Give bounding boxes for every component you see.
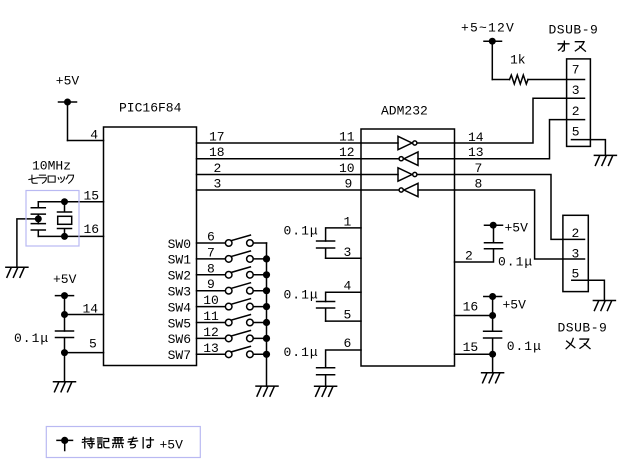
buffer U2A driver	[398, 136, 412, 149]
wire pin15	[38, 201, 103, 203]
wire U2D in/out inside box	[361, 189, 455, 191]
svg-text:14: 14	[83, 302, 99, 317]
svg-text:16: 16	[84, 222, 100, 237]
capacitor ceramic resonator left top	[31, 202, 45, 224]
svg-text:7: 7	[572, 62, 580, 77]
wire pin5	[65, 352, 104, 354]
buffer U2D receiver	[404, 183, 418, 196]
ground resonator	[6, 267, 28, 277]
svg-text:SW7: SW7	[168, 348, 191, 363]
switch SW4	[197, 299, 267, 307]
junction dot +5V top-left	[64, 99, 71, 106]
svg-text:9: 9	[345, 177, 353, 192]
svg-text:11: 11	[339, 130, 355, 145]
svg-text:6: 6	[207, 230, 215, 245]
svg-text:0.1μ: 0.1μ	[507, 339, 542, 354]
switch SW2	[197, 267, 267, 275]
svg-text:SW5: SW5	[168, 316, 191, 331]
box resonator outline	[26, 191, 79, 247]
svg-text:11: 11	[203, 309, 219, 324]
ground PIC bypass	[54, 382, 76, 392]
svg-text:15: 15	[463, 340, 479, 355]
svg-text:0.1μ: 0.1μ	[284, 288, 319, 303]
switch SW6	[197, 331, 267, 339]
power +5~12V symbol	[484, 41, 502, 79]
svg-text:+5V: +5V	[503, 298, 527, 313]
power symbol legend	[57, 440, 73, 450]
svg-text:7: 7	[207, 245, 215, 260]
node bus SW5	[263, 319, 270, 326]
junction dot +5V left	[61, 292, 68, 299]
wire U2B in/out inside box	[361, 158, 455, 160]
svg-text:SW1: SW1	[168, 253, 192, 268]
node bus SW4	[263, 303, 270, 310]
wire resonator to ground	[17, 219, 38, 267]
buffer U2B receiver	[404, 152, 418, 165]
switch SW7	[197, 346, 267, 354]
power +5V left symbol	[56, 296, 74, 331]
wire to R1	[492, 79, 509, 81]
node bus SW2	[263, 271, 270, 278]
capacitor C2 0.1u pins4-5	[317, 302, 335, 322]
svg-text:5: 5	[572, 267, 580, 282]
svg-text:10MHz: 10MHz	[32, 159, 71, 174]
svg-text:0.1μ: 0.1μ	[498, 255, 533, 270]
svg-text:13: 13	[203, 341, 219, 356]
node resonator pin15	[61, 198, 68, 205]
label legend 特記無きは	[82, 437, 153, 448]
svg-text:10: 10	[339, 161, 355, 176]
svg-text:6: 6	[344, 336, 352, 351]
wire J1 pin5 to ground	[572, 140, 606, 156]
wire R1 to DSUB male pin7	[528, 79, 585, 81]
wire pin4	[68, 140, 104, 142]
switch SW5	[197, 315, 267, 323]
svg-text:15: 15	[84, 189, 100, 204]
svg-text:4: 4	[90, 128, 98, 143]
wire U2C in/out inside box	[361, 174, 455, 176]
label J1 オス male	[558, 41, 585, 51]
connector J2 DSUB-9 female body	[563, 215, 588, 291]
wire RA pin2 to pin10	[197, 174, 362, 176]
connector J1 DSUB-9 male body	[567, 59, 591, 146]
node resonator mid	[35, 215, 42, 222]
node bus SW6	[263, 335, 270, 342]
node bus SW7	[263, 351, 270, 358]
capacitor C1 0.1u pins1-3	[317, 241, 335, 258]
wire ADM pin2	[455, 249, 494, 262]
ground J2	[593, 301, 615, 311]
svg-text:12: 12	[203, 325, 219, 340]
junction dot +5V pin16	[489, 293, 496, 300]
svg-text:0.1μ: 0.1μ	[14, 331, 49, 346]
node bus SW3	[263, 287, 270, 294]
switch SW1	[197, 251, 267, 259]
svg-text:14: 14	[468, 130, 484, 145]
svg-text:10: 10	[203, 293, 219, 308]
label J2 メス female	[566, 338, 590, 348]
svg-text:PIC16F84: PIC16F84	[119, 101, 182, 116]
wire ADM pin13 to J1 pin2	[455, 120, 585, 159]
wire ADM pin7 to J2 pin2	[455, 175, 585, 240]
svg-text:8: 8	[207, 261, 215, 276]
svg-text:0.1μ: 0.1μ	[284, 345, 319, 360]
junction dot legend	[61, 437, 68, 444]
wire ADM pin5	[326, 320, 361, 322]
node pin5	[61, 349, 68, 356]
svg-text:0.1μ: 0.1μ	[284, 224, 319, 239]
wire switch common bus	[266, 243, 268, 386]
label resonator セラロック	[29, 175, 74, 183]
svg-text:5: 5	[89, 337, 97, 352]
svg-text:DSUB-9: DSUB-9	[558, 321, 608, 336]
svg-text:2: 2	[572, 226, 580, 241]
wire ADM pin8 to J2 pin3	[455, 190, 585, 259]
ground J1	[594, 155, 616, 165]
svg-text:+5V: +5V	[53, 272, 77, 287]
node pin14	[61, 311, 68, 318]
wire ADM pin1	[326, 228, 361, 241]
node pin15	[489, 351, 496, 358]
junction dot +5~12V	[489, 38, 496, 45]
svg-text:DSUB-9: DSUB-9	[549, 23, 599, 38]
svg-text:3: 3	[572, 247, 580, 262]
wire ADM pin14 to J1 pin3	[455, 98, 585, 143]
svg-text:+5~12V: +5~12V	[461, 21, 515, 36]
wire RA pin3 to pin9	[197, 189, 362, 191]
svg-text:8: 8	[475, 177, 483, 192]
wire ADM pin16	[455, 315, 493, 317]
capacitor C3 0.1u pin6	[317, 368, 335, 387]
svg-text:SW4: SW4	[168, 300, 192, 315]
capacitor C4 0.1u V+	[485, 225, 503, 249]
svg-text:3: 3	[572, 83, 580, 98]
svg-text:7: 7	[475, 161, 483, 176]
power +5V at C4	[485, 224, 503, 226]
svg-text:16: 16	[463, 300, 479, 315]
svg-text:9: 9	[207, 277, 215, 292]
ground C5	[482, 373, 504, 383]
svg-text:+5V: +5V	[505, 221, 529, 236]
svg-text:12: 12	[339, 145, 355, 160]
svg-text:17: 17	[209, 130, 225, 145]
ground switch bus	[256, 386, 278, 396]
buffer U2C driver	[398, 168, 412, 181]
junction dot +5V C4	[490, 222, 497, 229]
power +5V at pin16	[484, 297, 502, 332]
svg-text:ADM232: ADM232	[381, 104, 428, 119]
power +5V top-left symbol	[59, 102, 77, 141]
svg-text:SW0: SW0	[168, 237, 191, 252]
capacitor C5 0.1u VCC	[484, 331, 502, 372]
capacitor C bypass 0.1u PIC	[56, 331, 74, 382]
svg-text:+5V: +5V	[160, 438, 184, 453]
svg-text:13: 13	[468, 145, 484, 160]
svg-text:2: 2	[572, 104, 580, 119]
wire ADM pin3	[326, 257, 361, 259]
svg-text:SW2: SW2	[168, 269, 191, 284]
wire pin16	[38, 235, 103, 237]
svg-text:4: 4	[344, 279, 352, 294]
node resonator pin16	[61, 233, 68, 240]
wire J2 pin5 to ground	[572, 280, 605, 300]
svg-text:3: 3	[344, 245, 352, 260]
wire U2A in/out inside box	[361, 142, 455, 144]
svg-text:1k: 1k	[510, 53, 526, 68]
box legend note	[46, 427, 200, 458]
capacitor ceramic resonator left bottom	[31, 224, 45, 237]
svg-text:18: 18	[209, 145, 225, 160]
resistor R1 1k	[510, 75, 529, 84]
node bus SW1	[263, 255, 270, 262]
wire ADM pin15	[455, 353, 493, 355]
wire pin14	[65, 314, 104, 316]
svg-text:1: 1	[344, 215, 352, 230]
switch SW0	[197, 235, 267, 243]
wire RB pin17 to pin11	[197, 142, 362, 144]
ground C3	[315, 386, 337, 396]
svg-text:2: 2	[465, 249, 473, 264]
svg-text:2: 2	[214, 161, 222, 176]
node pin16	[489, 312, 496, 319]
svg-text:+5V: +5V	[56, 74, 80, 89]
svg-text:5: 5	[344, 308, 352, 323]
wire RB pin18 to pin12	[197, 158, 362, 160]
wire ADM pin4	[326, 292, 361, 301]
IC U1 PIC16F84 body	[104, 127, 197, 366]
svg-text:SW3: SW3	[168, 285, 191, 300]
svg-text:5: 5	[572, 125, 580, 140]
switch SW3	[197, 283, 267, 291]
IC U2 ADM232 body	[361, 129, 455, 366]
wire ADM pin6	[326, 350, 361, 368]
crystal X1 10MHz	[58, 202, 72, 237]
svg-text:3: 3	[214, 177, 222, 192]
svg-text:SW6: SW6	[168, 332, 191, 347]
